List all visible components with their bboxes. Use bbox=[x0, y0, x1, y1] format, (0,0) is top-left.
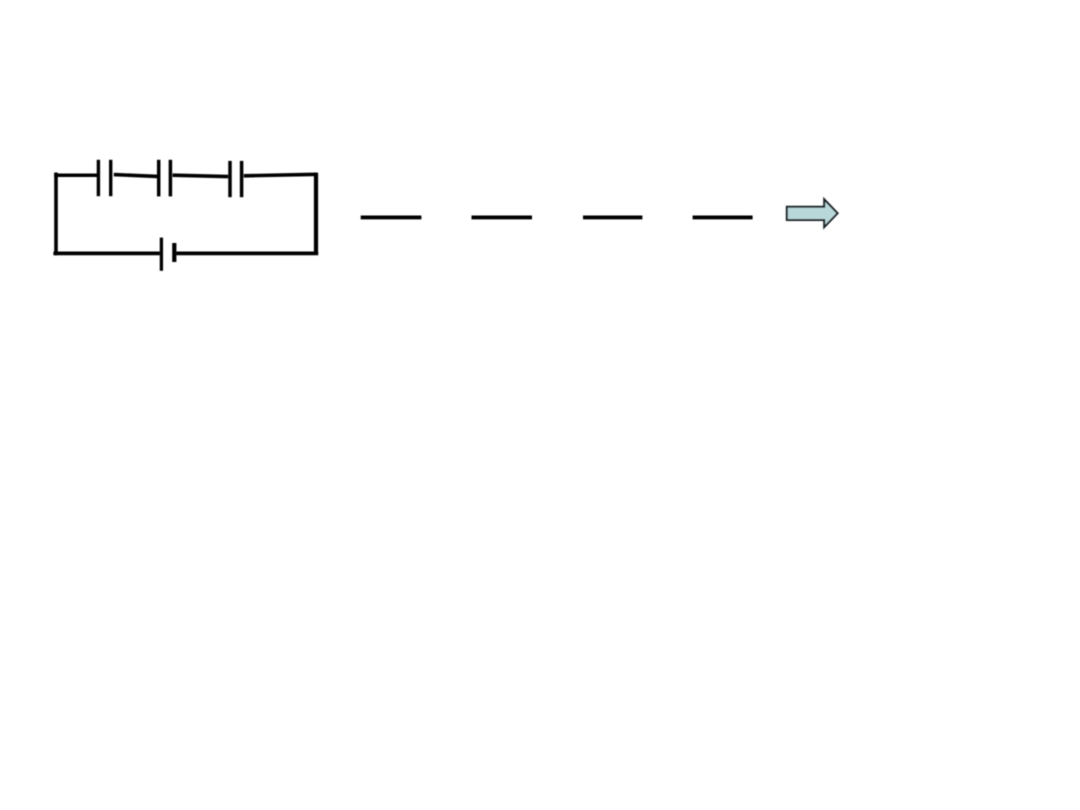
capacitor C3 bbox=[230, 161, 242, 197]
wire between C1 and C2 bbox=[114, 175, 158, 177]
blank dash 1 bbox=[361, 215, 422, 219]
blank dash 4 bbox=[693, 215, 753, 219]
wire bottom-left horizontal bbox=[53, 251, 159, 255]
blank dash 3 bbox=[583, 215, 642, 219]
wire top-left horizontal bbox=[54, 174, 97, 178]
wire between C2 and C3 bbox=[173, 175, 229, 176]
arrow pointing right bbox=[787, 199, 838, 227]
wire left vertical bbox=[54, 173, 58, 256]
battery B1 bbox=[161, 238, 174, 271]
capacitor C1 bbox=[98, 160, 110, 196]
wire right vertical bbox=[314, 173, 318, 255]
wire top-right horizontal bbox=[244, 174, 318, 176]
capacitor C2 bbox=[159, 160, 171, 197]
blank dash 2 bbox=[472, 215, 533, 219]
wire bottom-right horizontal bbox=[176, 251, 318, 255]
